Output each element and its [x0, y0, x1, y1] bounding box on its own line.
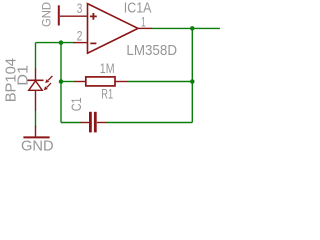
- capacitor C1 plate right: [94, 112, 97, 133]
- capacitor C1 plate left: [89, 112, 92, 133]
- svg-text:IC1A: IC1A: [124, 1, 152, 17]
- wire R1 right to junction: [127, 81, 192, 83]
- wire C1 right: [106, 122, 192, 124]
- photodiode light arrow lower: [44, 83, 51, 90]
- photodiode D1 cathode bar: [28, 79, 44, 81]
- wire output horizontal: [152, 27, 220, 29]
- svg-text:GND: GND: [40, 2, 54, 27]
- svg-text:2: 2: [77, 29, 83, 44]
- op-amp plus sign: [90, 13, 97, 20]
- wire to R1 left: [61, 81, 75, 83]
- wire C1 left: [61, 122, 81, 124]
- resistor R1 right lead: [115, 81, 127, 83]
- svg-text:LM358D: LM358D: [126, 42, 177, 59]
- op-amp U1 pin 1: [138, 27, 152, 29]
- capacitor C1 left lead: [81, 122, 90, 124]
- op-amp U1 pin 2: [73, 42, 88, 44]
- svg-text:GND: GND: [21, 138, 54, 153]
- junction dot output: [190, 26, 195, 31]
- op-amp U1 triangle: [88, 4, 139, 54]
- op-amp U1 pin 3: [60, 15, 88, 17]
- svg-text:R1: R1: [101, 87, 113, 102]
- ground top bar: [58, 5, 60, 25]
- photodiode D1 cathode pin: [35, 68, 37, 80]
- op-amp minus sign: [90, 42, 96, 44]
- ground bottom pin: [35, 126, 37, 137]
- wire D1 anode to GND: [35, 110, 37, 127]
- wire net N$1 pin2 horizontal: [36, 42, 74, 44]
- svg-text:1: 1: [141, 15, 146, 30]
- svg-text:D1: D1: [16, 65, 32, 86]
- svg-text:1M: 1M: [100, 61, 115, 76]
- resistor R1 left lead: [75, 81, 86, 83]
- junction dot R1 right: [190, 79, 195, 84]
- resistor R1 body: [86, 77, 115, 86]
- svg-text:3: 3: [77, 1, 83, 16]
- ground bottom bar: [23, 136, 49, 138]
- junction dot pin2: [59, 40, 64, 45]
- junction dot R1 left: [59, 79, 64, 84]
- photodiode light arrow upper: [45, 76, 52, 83]
- capacitor C1 right lead: [97, 122, 107, 124]
- photodiode D1 anode pin: [35, 90, 37, 110]
- wire feedback vertical left: [60, 43, 62, 123]
- wire feedback vertical right: [191, 28, 193, 122]
- photodiode D1 triangle: [29, 81, 43, 91]
- svg-text:C1: C1: [68, 97, 84, 111]
- wire net N$1 down to D1 cathode: [35, 43, 37, 69]
